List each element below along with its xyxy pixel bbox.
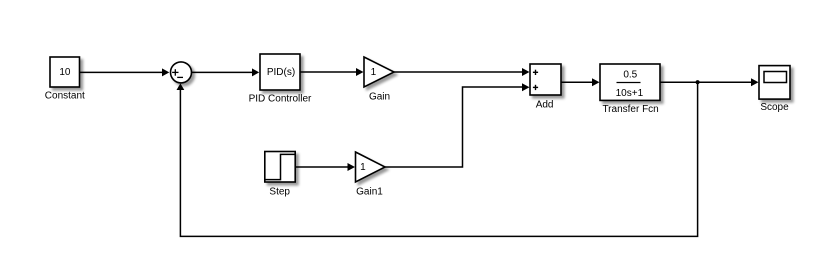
- svg-text:PID Controller: PID Controller: [249, 94, 312, 105]
- block Transfer Fcn: [600, 64, 660, 115]
- block Scope: [759, 66, 790, 113]
- svg-text:10s+1: 10s+1: [616, 88, 644, 99]
- block Add: [530, 64, 561, 110]
- wire Transfer Fcn to Scope: [660, 78, 759, 86]
- svg-text:Gain: Gain: [369, 91, 390, 102]
- svg-text:10: 10: [59, 67, 71, 78]
- wire Constant to Sum: [80, 68, 170, 76]
- svg-text:Transfer Fcn: Transfer Fcn: [602, 104, 658, 115]
- svg-text:PID(s): PID(s): [267, 67, 295, 78]
- svg-text:Constant: Constant: [45, 91, 85, 102]
- wire Step to Gain1: [295, 163, 355, 171]
- svg-text:0.5: 0.5: [623, 70, 637, 81]
- gain Gain1: [356, 152, 386, 198]
- block Constant: [45, 57, 85, 102]
- svg-text:1: 1: [371, 67, 377, 78]
- wire Add to Transfer Fcn: [561, 78, 600, 86]
- junction node after Transfer Fcn: [696, 80, 700, 84]
- wire PID Controller to Gain: [300, 68, 364, 76]
- wire Gain1 to Add input 2: [385, 83, 530, 167]
- block Step: [265, 152, 295, 198]
- svg-text:1: 1: [360, 162, 366, 173]
- wire Sum to PID Controller: [192, 68, 260, 76]
- svg-text:Step: Step: [269, 187, 290, 198]
- svg-text:Gain1: Gain1: [356, 187, 383, 198]
- svg-text:Add: Add: [536, 99, 554, 110]
- block PID Controller: [249, 54, 312, 105]
- gain Gain: [364, 57, 394, 102]
- wire Gain to Add input 1: [394, 68, 530, 76]
- sum junction Sum: [171, 62, 192, 83]
- svg-text:Scope: Scope: [760, 102, 789, 113]
- wire feedback to Sum: [177, 82, 698, 236]
